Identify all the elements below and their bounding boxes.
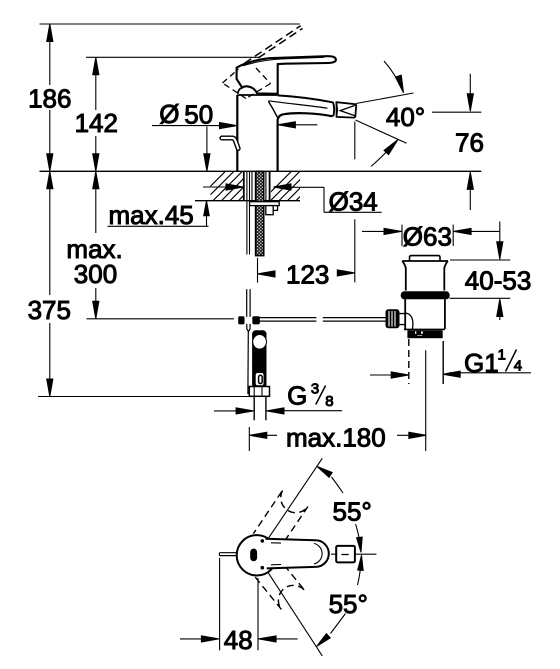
horizontal actuating rod to waste <box>253 317 316 319</box>
svg-text:1: 1 <box>498 346 506 363</box>
shank right lines <box>265 171 267 200</box>
waste body bottom curve <box>405 313 413 329</box>
tailpipe right wall <box>442 341 444 384</box>
plan view: screw dots <box>261 540 264 543</box>
svg-text:Ø63: Ø63 <box>403 221 452 251</box>
svg-text:max.45: max.45 <box>109 200 194 230</box>
aerator drop extension line upper part <box>354 122 356 160</box>
lever top inner line <box>243 57 325 66</box>
O50 right-side arrow inside body <box>295 124 317 126</box>
aerator tip block <box>337 102 357 117</box>
55deg lower reference line <box>268 572 323 656</box>
waste body <box>405 299 445 329</box>
aerator spray cone V <box>340 105 355 115</box>
svg-text:G: G <box>287 380 307 410</box>
faucet body left edge <box>236 95 238 171</box>
plan view: centerline <box>331 553 336 555</box>
svg-text:max.180: max.180 <box>286 423 386 453</box>
rod clamp <box>239 317 244 324</box>
76 dimension line x=470.3 <box>469 74 471 95</box>
plan view: dashed lever rotated down 55deg <box>255 558 305 610</box>
plan view: lever <box>265 539 328 569</box>
bottom ref line for 375 at y=396.5 <box>38 396 249 398</box>
svg-text:76: 76 <box>455 128 484 158</box>
waste o-ring (black band) <box>401 292 449 299</box>
svg-text:55°: 55° <box>333 497 372 527</box>
spout armpit crease <box>269 102 278 118</box>
svg-text:40-53: 40-53 <box>465 265 532 295</box>
waste bottom edge <box>404 328 445 330</box>
76 height ref line at spout tip level <box>432 111 481 113</box>
svg-text:123: 123 <box>286 260 329 290</box>
G1-1/4 arrows and label <box>370 374 392 376</box>
40deg lower reference line <box>356 120 407 143</box>
waste knob neck <box>399 314 405 325</box>
dimension line 142/max300 at x=95.8 <box>95 57 97 110</box>
40-53 dimension <box>450 259 510 261</box>
svg-text:48: 48 <box>224 625 253 655</box>
mounting washer <box>250 202 280 206</box>
svg-text:4: 4 <box>514 357 522 374</box>
plan view: aerator block <box>336 546 355 563</box>
plan view: body circle <box>237 535 277 575</box>
deck bottom line y=200.7 <box>195 200 300 202</box>
cartridge dome arc <box>238 88 242 94</box>
G3/8 hex nut <box>249 387 269 397</box>
dim extension line lever top (142 ref), y=57.3 <box>86 56 260 58</box>
svg-text:8: 8 <box>325 393 333 410</box>
waste flange trumpet <box>402 260 448 262</box>
threaded rod with crosshatch <box>256 171 264 255</box>
svg-text:3: 3 <box>311 380 319 397</box>
waste flange plug cap <box>410 256 441 261</box>
tailpipe G1-1/4 left wall dashed <box>408 339 410 384</box>
dimension line 186/375 at x=49.8 <box>49 24 51 85</box>
waste bottom thread band <box>408 331 442 338</box>
O63 dimension <box>401 225 403 246</box>
ref line for max300 at y=318.8 <box>87 318 235 320</box>
waste centerline extension for max180 <box>425 350 427 451</box>
O34 arrows at shank <box>203 186 227 188</box>
pop-up rod lower thin segment <box>247 332 249 395</box>
svg-text:186: 186 <box>28 84 71 114</box>
G3/8 arrows <box>214 410 238 412</box>
G3/8 threaded tube <box>253 396 255 420</box>
hose window <box>255 373 264 386</box>
40deg upper reference line <box>356 93 414 104</box>
flexible hose lines in shank <box>246 171 248 254</box>
mounting bracket <box>266 206 273 215</box>
svg-text:Ø34: Ø34 <box>329 187 378 217</box>
svg-text:Ø: Ø <box>159 99 179 129</box>
svg-text:40°: 40° <box>386 102 425 132</box>
svg-text:G1: G1 <box>464 348 499 378</box>
faucet body top line <box>237 94 277 96</box>
dashed raised lever (40deg position) <box>245 26 303 65</box>
lever handle solid outline <box>237 56 336 94</box>
faucet body right edge and spout underside curve <box>278 113 333 171</box>
shank left boundary below deck <box>243 171 245 200</box>
pop-up vertical rod <box>246 289 248 317</box>
max180 dimension <box>248 427 250 451</box>
svg-text:300: 300 <box>74 259 117 289</box>
40deg upper arc arrow <box>384 61 403 91</box>
aerator joint band <box>333 102 334 117</box>
dashed lever base rotated outline <box>223 68 271 99</box>
svg-text:375: 375 <box>28 295 71 325</box>
pop-up rod hook on body left <box>222 138 238 149</box>
123 dimension <box>257 258 259 283</box>
svg-text:55°: 55° <box>329 589 368 619</box>
svg-text:50: 50 <box>184 100 213 130</box>
55deg upper reference line <box>268 458 322 538</box>
spout inner reflection line <box>268 101 327 108</box>
40deg lower arc arrow <box>371 142 397 167</box>
spout top edge <box>278 95 333 102</box>
48 dimension <box>219 558 221 650</box>
plan view: dashed lever rotated up 55deg <box>253 489 308 550</box>
plan view: rod to left <box>219 552 237 554</box>
flexible hose lower part (black) <box>253 331 266 388</box>
deck top line y=171.3 <box>40 170 482 172</box>
waste knurled knob <box>386 310 399 328</box>
svg-text:142: 142 <box>75 108 118 138</box>
plan view: lever slot <box>251 549 257 561</box>
dim extension line top (186 ref), y=24 <box>40 23 300 25</box>
